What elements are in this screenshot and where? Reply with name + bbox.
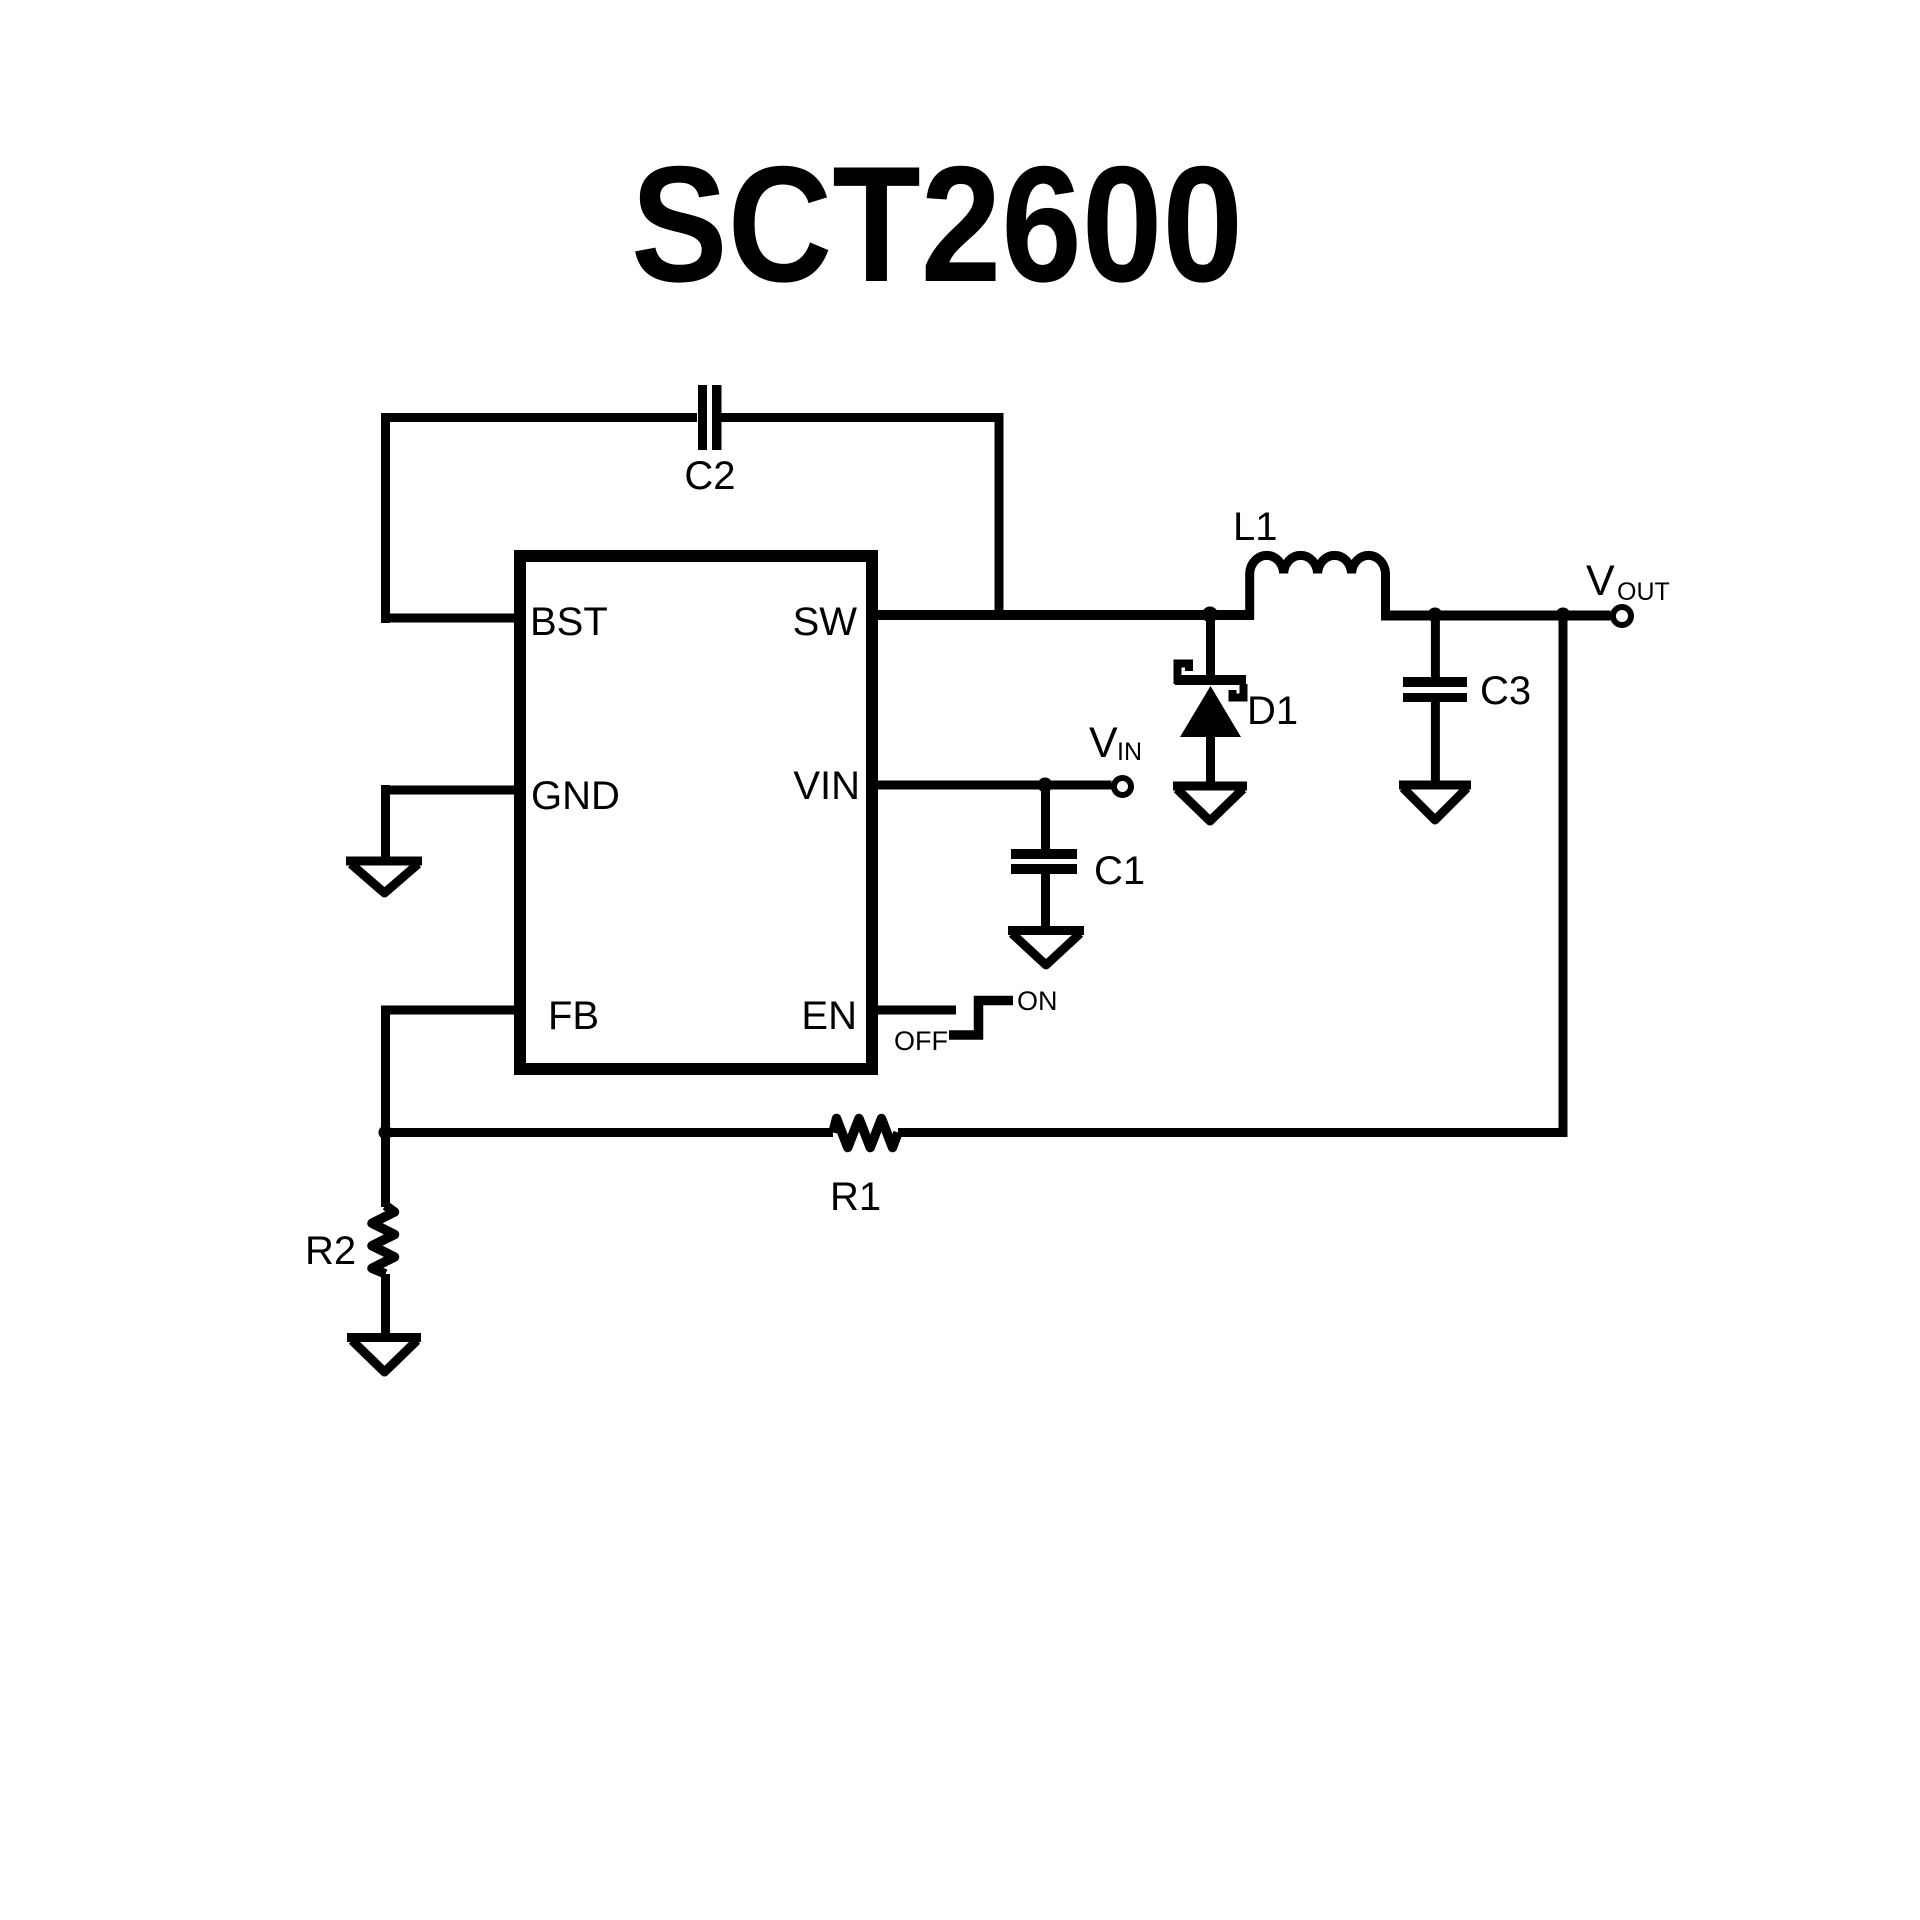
- wire R1 left segment: [385, 1128, 833, 1137]
- svg-text:OFF: OFF: [894, 1026, 948, 1056]
- wire VOUT branch down to R1: [1559, 615, 1568, 1133]
- ground (C3): [1399, 785, 1471, 820]
- capacitor C1: [1011, 785, 1145, 926]
- wire EN pin: [872, 1006, 956, 1015]
- wire SW pin to L1: [872, 610, 1254, 620]
- svg-text:OUT: OUT: [1617, 578, 1670, 606]
- node C1 junction: [1038, 778, 1053, 793]
- svg-text:V: V: [1089, 719, 1118, 767]
- svg-text:R2: R2: [305, 1229, 356, 1273]
- resistor R1: [830, 1119, 898, 1220]
- wire R1 right segment: [898, 1128, 1568, 1137]
- svg-text:R1: R1: [830, 1175, 881, 1219]
- wire C2 top left segment: [381, 413, 697, 422]
- ground (D1): [1173, 786, 1247, 821]
- wire C2 left vertical: [381, 413, 390, 623]
- node R1 branch junction: [1556, 608, 1571, 623]
- svg-text:VIN: VIN: [793, 764, 860, 808]
- svg-text:L1: L1: [1233, 505, 1278, 549]
- wire C2 top right segment: [722, 413, 1004, 422]
- wire FB vertical down: [381, 1006, 390, 1208]
- IC U1 SCT2600 regulator block: [520, 556, 872, 1069]
- wire R2 to ground: [381, 1274, 390, 1337]
- svg-text:IN: IN: [1117, 738, 1142, 766]
- wire L1 to VOUT: [1381, 611, 1611, 621]
- svg-text:C3: C3: [1480, 669, 1531, 713]
- svg-text:C1: C1: [1094, 849, 1145, 893]
- svg-text:D1: D1: [1247, 689, 1298, 733]
- svg-text:EN: EN: [801, 994, 857, 1038]
- svg-text:C2: C2: [684, 454, 735, 498]
- svg-text:FB: FB: [548, 994, 599, 1038]
- terminal VIN: [1089, 719, 1142, 795]
- ground (GND pin): [346, 861, 422, 893]
- svg-text:BST: BST: [530, 600, 608, 644]
- wire C2 right vertical: [995, 413, 1004, 620]
- svg-text:ON: ON: [1017, 986, 1058, 1016]
- capacitor C3: [1403, 610, 1531, 781]
- wire VIN pin: [872, 781, 1112, 790]
- node SW/D1 junction: [1202, 607, 1218, 623]
- capacitor C2: [684, 385, 735, 498]
- diode D1 (schottky): [1175, 610, 1298, 786]
- wire BST pin: [381, 614, 520, 623]
- wire FB pin: [385, 1006, 520, 1015]
- node C3 junction: [1428, 608, 1443, 623]
- svg-text:SW: SW: [793, 600, 858, 644]
- inductor L1: [1233, 505, 1385, 619]
- node FB/R1 junction: [379, 1126, 393, 1140]
- ground (C1): [1008, 931, 1084, 966]
- svg-text:V: V: [1586, 557, 1615, 605]
- resistor R2: [305, 1206, 395, 1275]
- terminal VOUT: [1586, 557, 1670, 625]
- svg-text:GND: GND: [531, 774, 620, 818]
- svg-text:SCT2600: SCT2600: [631, 132, 1243, 316]
- wire GND down: [381, 785, 390, 858]
- wire GND pin: [381, 786, 520, 795]
- ground (R2): [347, 1338, 421, 1373]
- EN on/off step: [894, 986, 1058, 1056]
